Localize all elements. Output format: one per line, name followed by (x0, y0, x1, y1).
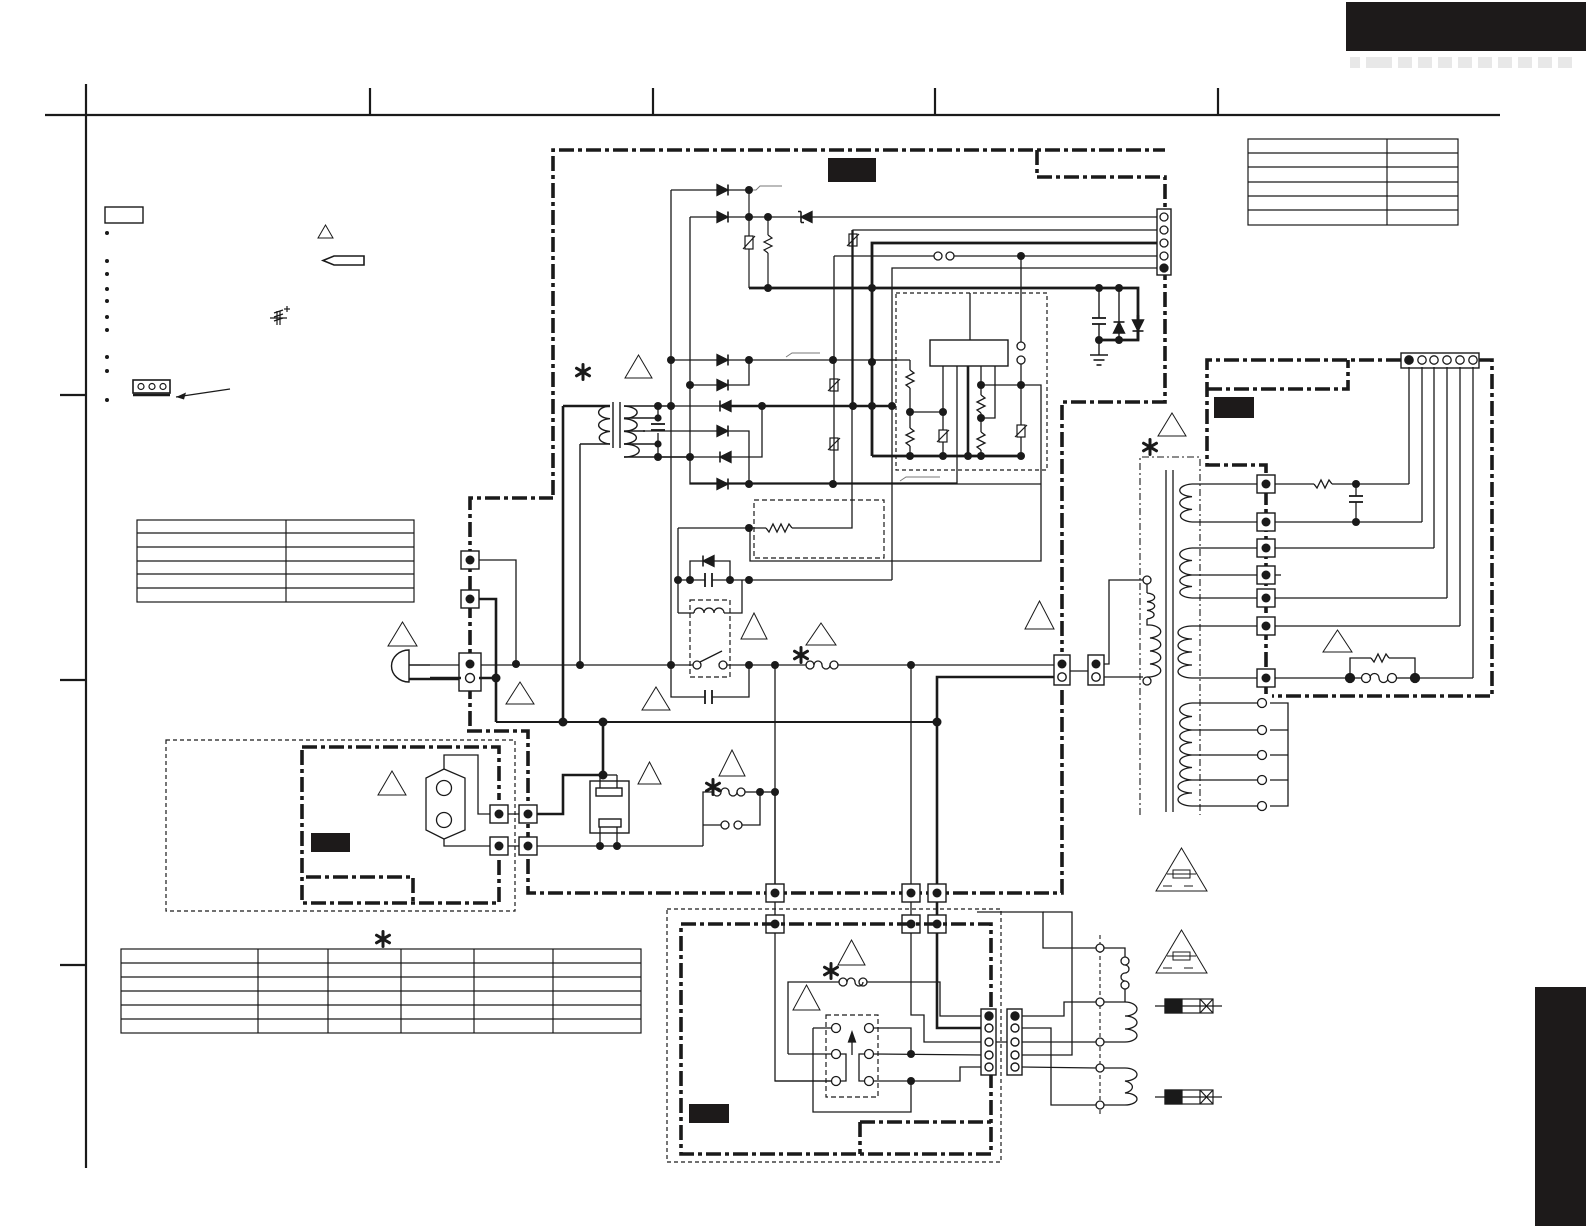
interlock vertical x1021 (1015, 256, 1027, 456)
fuse F5 (1155, 1090, 1222, 1104)
IC U1 (930, 340, 1008, 366)
T3 primary (1143, 576, 1161, 685)
transistor note symbol (270, 306, 290, 325)
AC inlet dash-dot box (302, 747, 499, 903)
diode D10 down at 1138 (1133, 320, 1144, 331)
rectifier diode row y484 (690, 457, 1041, 490)
vertical x671 (670, 190, 672, 665)
fuse F3 (788, 978, 983, 1054)
title black bar top right (1346, 2, 1586, 51)
T1 tap capacitor (651, 406, 665, 457)
standby block border right (dash-dot) (1207, 360, 1492, 696)
thermal fuse block wires (535, 775, 617, 814)
block label black rect (828, 158, 876, 182)
wire from interlock to relay row (750, 385, 1041, 561)
connector CN4 pair (981, 1009, 1022, 1075)
fusible resistor R1 on x749 (743, 190, 755, 288)
fusible resistors on x834 (828, 379, 840, 450)
wire row 2 (853, 230, 1157, 406)
bullet list dots (105, 231, 109, 402)
wire row D+ (815, 216, 1157, 218)
relay K2 contacts (775, 1024, 983, 1113)
relay K1 diode loop (678, 528, 892, 613)
fusible resistor on x853 (847, 234, 859, 246)
pin squares on x470 (459, 551, 481, 691)
note label rectangle (105, 207, 143, 223)
relay K1 dashed outline (690, 600, 730, 677)
IC dotted box (896, 293, 1047, 470)
wires CN4 to T2 (977, 912, 1096, 1105)
cap C10 at 1099 (1092, 288, 1106, 355)
wires CN3 to T3 primary (1104, 580, 1143, 677)
AC plug (392, 650, 465, 682)
fuse F4 (1155, 999, 1222, 1013)
hot warning triangle 1 (1156, 848, 1207, 891)
wires into bottom block (775, 933, 1009, 1081)
left arrow pentagon (323, 256, 364, 265)
T3 core (1166, 470, 1173, 812)
low voltage winding taps with bracket (1192, 699, 1288, 811)
transformer T1 (563, 402, 690, 665)
rectifier diode row y360 (671, 353, 910, 366)
fuse F2 loop (703, 788, 775, 846)
snubber dashed box (754, 500, 884, 558)
AC inlet dotted box (166, 740, 515, 911)
diode D1 row (671, 185, 782, 196)
diode D9 up at 1119 (1114, 288, 1125, 340)
3-pin connector note (133, 380, 230, 400)
junction dots bridge (667, 186, 896, 488)
bottom block dotted box (667, 909, 1001, 1162)
transformer T2 (1096, 935, 1137, 1115)
AC live wire y665 (430, 661, 1056, 669)
rectifier diode row y406 reversed (671, 401, 892, 412)
star above bottom table (377, 932, 390, 947)
power supply block border (dash-dot) (463, 150, 1165, 893)
diode D2 row + zener (690, 212, 815, 223)
relay switch contact (671, 651, 749, 669)
page number black bar right edge (1535, 987, 1586, 1226)
small triangle note (318, 225, 333, 238)
table left middle (137, 520, 414, 602)
IC legs + resistors (690, 360, 1021, 483)
inlet pin squares (490, 805, 537, 855)
AC inlet label black rect (311, 833, 350, 852)
bottom return wire y846 (535, 845, 703, 847)
wire row 3 thick (872, 243, 1157, 456)
rectifier diode row y385 (690, 360, 749, 391)
rectifier diode row y431 (643, 426, 749, 485)
wire row 5 (892, 268, 1157, 580)
relay K2 dashed box (826, 1015, 878, 1097)
secondary row wires (1275, 480, 1460, 626)
thermal fuse / SSR box (590, 775, 629, 846)
resistor R2 on x768 (764, 217, 772, 288)
table bottom (121, 949, 641, 1033)
bottom block dash-dot box (681, 924, 991, 1154)
connector CN1 6pin right block top (1401, 353, 1479, 368)
T3 pin squares column (1257, 475, 1275, 687)
thick ground rail y456 (872, 455, 1021, 458)
standby label black rect (1214, 397, 1254, 418)
vertical x775 x911 x937 down (775, 665, 1056, 888)
stars (577, 365, 1157, 979)
fuse row y678 (1275, 654, 1473, 683)
connector CN2 5pin into block (1157, 209, 1171, 275)
faint caption under title bar (1350, 57, 1572, 68)
hot warning triangle 2 (1156, 930, 1207, 973)
T3 tap wires to pins (1192, 484, 1258, 678)
wires from pins x470 (430, 560, 516, 722)
bottom block label black rect (689, 1104, 729, 1123)
neutral rail y722 (496, 406, 937, 775)
connector wires risers (1409, 367, 1473, 678)
table top right (1248, 139, 1458, 225)
wire row 4 with interlock (834, 255, 934, 257)
ground symbol (1090, 355, 1108, 365)
warning triangles plain (378, 355, 1352, 1010)
AC inlet socket (426, 755, 492, 846)
connector CN3 to transformer (1054, 655, 1104, 685)
pins on central block bottom edge (766, 884, 946, 933)
rectifier diode row y457 reversed (658, 406, 762, 463)
vertical x690 (689, 217, 691, 457)
T3 secondary windings (1178, 484, 1192, 806)
resistor R3 snubber (678, 230, 852, 532)
thick rail y288 (749, 288, 1138, 340)
X-cap bypass loop (671, 665, 749, 704)
transformer T3 dashed enclosure (1140, 457, 1200, 815)
